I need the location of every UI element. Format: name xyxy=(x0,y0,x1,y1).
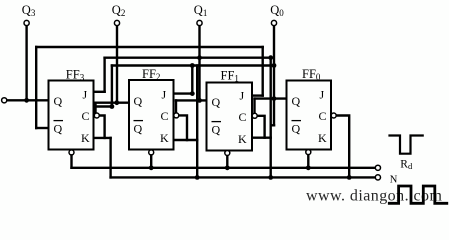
junction dot lineB xyxy=(110,104,115,109)
svg-text:J: J xyxy=(320,88,325,102)
wire C1 bubble lead xyxy=(257,116,264,138)
wire J3 row xyxy=(94,91,105,93)
junction dot Q3-output xyxy=(24,98,29,103)
svg-text:Q: Q xyxy=(134,122,143,136)
terminal Q0 xyxy=(271,20,276,25)
terminal Q3 xyxy=(24,20,29,25)
bubble C3 clock xyxy=(94,113,99,118)
pin letters FF2 xyxy=(134,88,170,146)
wire Q0 jog xyxy=(271,124,274,126)
terminal Rd xyxy=(375,165,380,170)
wire C3 bubble lead xyxy=(100,116,105,138)
wire J2 row xyxy=(174,92,193,94)
pin letters FF1 xyxy=(212,89,248,147)
wire FF3 reset drop xyxy=(70,155,72,168)
terminal N xyxy=(375,175,380,180)
wire long vertical x196 to N xyxy=(196,66,198,178)
junction dot J2 row end xyxy=(190,91,195,96)
wire FF0 reset drop xyxy=(307,155,309,168)
bubble FF0 reset xyxy=(306,150,311,155)
svg-text:J: J xyxy=(83,88,88,102)
svg-text:C: C xyxy=(239,110,247,124)
junction dot N C0 xyxy=(347,175,352,180)
bubble FF1 reset xyxy=(225,151,230,156)
svg-text:K: K xyxy=(160,131,169,145)
wire feedback line2 xyxy=(105,57,271,59)
junction dot N x196 xyxy=(195,175,200,180)
pin letters FF3 xyxy=(54,88,91,146)
wire long vertical x270 to N xyxy=(270,58,272,178)
junction dot Q2-lineA xyxy=(114,100,119,105)
bubble C0 clock xyxy=(331,113,336,118)
pin letters FF0 xyxy=(292,88,328,146)
wire lineB xyxy=(95,105,112,107)
wire Q1 row xyxy=(176,99,207,101)
overbar Q0bar xyxy=(292,120,302,122)
terminal carry output left xyxy=(2,98,7,103)
flip-flop FF0 box xyxy=(287,81,332,150)
svg-text:J: J xyxy=(162,88,167,102)
wire C2 drop stub xyxy=(175,100,177,112)
wire FF2 reset drop xyxy=(150,155,152,168)
bubble C2 clock xyxy=(174,113,179,118)
wire C3 drop stub xyxy=(94,103,96,113)
wire Rd line xyxy=(72,167,376,169)
junction dot Q1 row xyxy=(197,98,202,103)
svg-text:Q: Q xyxy=(212,95,221,109)
svg-text:Q: Q xyxy=(54,94,63,108)
wire C1 drop stub xyxy=(253,99,255,113)
waveform Rd pulse xyxy=(388,136,423,154)
wire vertical x104 xyxy=(103,58,105,92)
wire lineA Q2 row xyxy=(95,101,129,103)
wire vertical x110 to N xyxy=(109,138,111,178)
svg-text:Rd: Rd xyxy=(400,159,413,172)
svg-text:K: K xyxy=(318,131,327,145)
flip-flop FF1 box xyxy=(207,83,253,151)
wire vertical x192 line3 to J2 xyxy=(191,66,193,94)
wire N line xyxy=(111,176,376,178)
wire vertical x262 to J1 xyxy=(262,47,264,96)
junction dot FF0 reset xyxy=(306,165,311,170)
svg-text:C: C xyxy=(319,109,327,123)
wire Q0 vertical xyxy=(273,26,275,125)
bubble FF2 reset xyxy=(149,150,154,155)
wire left output terminal to FF3 Q xyxy=(7,99,49,101)
svg-text:Q: Q xyxy=(292,122,301,136)
wire C2 bubble lead xyxy=(179,115,187,140)
svg-text:Q: Q xyxy=(292,94,301,108)
junction dot Q0 row xyxy=(272,96,277,101)
junction dot line3 x196 xyxy=(190,63,195,68)
wire Q#3-bar row xyxy=(36,127,48,129)
terminal Q2 xyxy=(114,20,119,25)
wire feedback line3 xyxy=(112,64,274,66)
overbar Q1bar xyxy=(212,121,222,123)
overbar Q3bar xyxy=(54,120,64,122)
overbar Q2bar xyxy=(134,120,144,122)
wire Q3 vertical xyxy=(25,26,27,100)
waveform N pulses xyxy=(388,186,448,203)
wire Q1 vertical xyxy=(198,26,200,100)
wire C0 bubble lead xyxy=(336,116,349,178)
junction dot line3 Q0 xyxy=(272,63,277,68)
svg-text:J: J xyxy=(240,89,245,103)
wire vertical x36 xyxy=(35,47,37,128)
wire feedback line1 xyxy=(36,46,263,48)
wire K3 row xyxy=(94,137,111,139)
wire K2 step row xyxy=(174,139,198,141)
wire Q0 row xyxy=(255,97,287,99)
bubble C1 clock xyxy=(252,113,257,118)
svg-text:K: K xyxy=(238,132,247,146)
svg-text:C: C xyxy=(161,109,169,123)
wire Q2 vertical xyxy=(116,26,118,103)
wire drop x111 xyxy=(111,66,113,107)
svg-text:K: K xyxy=(81,131,90,145)
svg-text:Q: Q xyxy=(54,122,63,136)
bubble FF3 reset xyxy=(69,150,74,155)
junction dot line2 end xyxy=(268,55,273,60)
terminal Q1 xyxy=(197,20,202,25)
junction dot Q1-line2 xyxy=(197,55,202,60)
svg-text:Q: Q xyxy=(134,94,143,108)
svg-text:N: N xyxy=(390,174,398,185)
wire K1 step row xyxy=(252,136,271,138)
junction dot FF2 reset xyxy=(149,165,154,170)
wire J1 stub xyxy=(252,94,263,96)
wire FF1 reset drop xyxy=(226,156,228,168)
flip-flop FF2 box xyxy=(129,80,174,150)
junction dot FF1 reset xyxy=(225,165,230,170)
svg-text:Q: Q xyxy=(212,123,221,137)
svg-text:C: C xyxy=(82,109,90,123)
junction dot N x270 xyxy=(268,175,273,180)
flip-flop FF3 box xyxy=(49,81,94,150)
